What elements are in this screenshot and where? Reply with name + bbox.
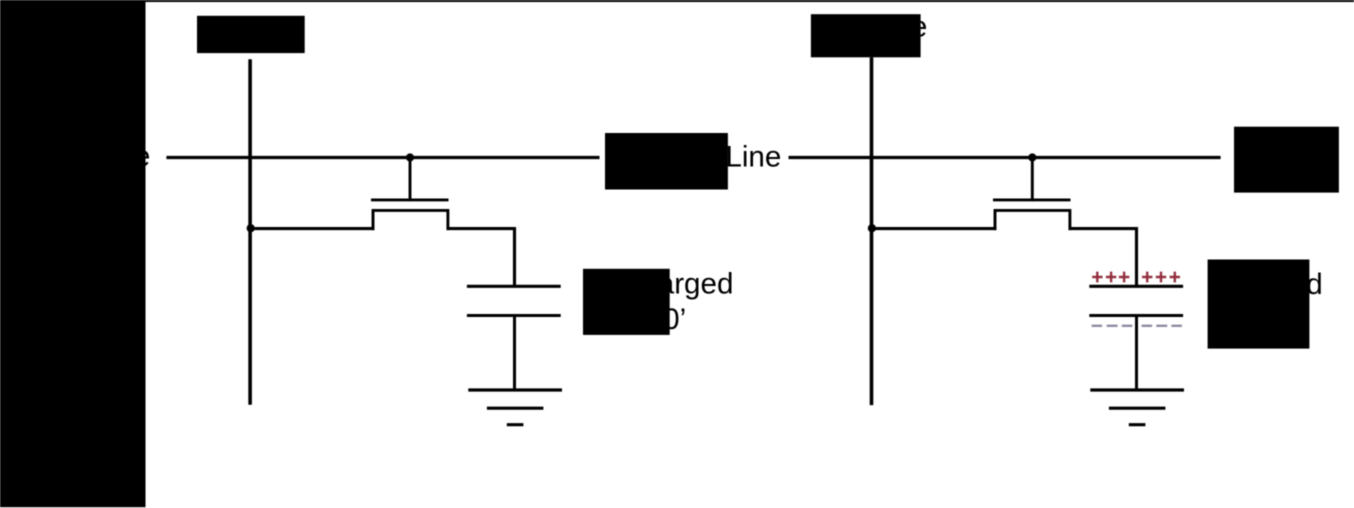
transistor Q2 (right access transistor) xyxy=(993,158,1071,231)
ground (left) xyxy=(468,390,562,425)
node: left gate tap on word line xyxy=(406,153,414,161)
wire: left drain wire to capacitor xyxy=(447,229,515,287)
node: right gate tap on word line xyxy=(1028,153,1036,161)
redaction strip (left margin) xyxy=(0,0,146,507)
svg-text:Line: Line xyxy=(725,140,781,173)
redaction box (right word line label) xyxy=(1234,127,1339,193)
negative charge symbols (dashed) under bottom plate xyxy=(1092,325,1182,327)
wire: word line right segment xyxy=(789,156,1221,159)
wire: left bit line xyxy=(248,59,252,404)
wire: right drain wire to capacitor xyxy=(1069,229,1137,287)
caption: Charged = '1' (right cell state) xyxy=(1209,268,1323,337)
caption: Discharged = '0' (left cell state) xyxy=(584,268,734,337)
wire: left source wire xyxy=(249,227,374,230)
capacitor C2 (right storage capacitor) xyxy=(1089,286,1183,315)
redaction box (middle word line label) xyxy=(605,133,728,190)
top border line xyxy=(0,0,1354,2)
ground (right) xyxy=(1090,390,1184,425)
wire: left capacitor to ground lead xyxy=(513,316,516,389)
wire: word line left segment xyxy=(166,156,599,159)
capacitor C1 (left storage capacitor) xyxy=(467,286,561,315)
redaction box (right bit line label) xyxy=(811,14,921,57)
redaction box (left bit line label) xyxy=(197,16,305,53)
wire: right bit line xyxy=(870,57,874,405)
transistor Q1 (left access transistor) xyxy=(371,158,449,231)
positive charge symbols (+++ +++) on top plate xyxy=(1092,272,1180,283)
wire: right capacitor to ground lead xyxy=(1135,316,1138,389)
node: right bit line junction xyxy=(868,224,876,232)
redaction box (right caption) xyxy=(1208,260,1310,349)
node: left bit line junction xyxy=(247,224,255,232)
wire: right source wire xyxy=(871,227,996,230)
redaction box (left caption) xyxy=(583,269,670,335)
